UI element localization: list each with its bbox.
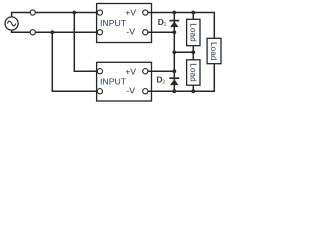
terminal: U1 +V [143, 10, 148, 15]
svg-text:-V: -V [126, 86, 135, 96]
junction dot bottom rail / D2 [172, 89, 176, 93]
power supply U2 (INPUT box, lower) [97, 62, 152, 101]
load box Load3 [207, 38, 221, 63]
svg-text:INPUT: INPUT [100, 77, 127, 87]
terminal: U1 input top [97, 10, 102, 15]
svg-text:2: 2 [162, 79, 165, 85]
junction dot top rail / D1 [172, 11, 176, 15]
terminal: U2 input bottom [97, 89, 102, 94]
diode D1 [169, 21, 179, 28]
junction dot middle rail / trunk [172, 50, 176, 54]
svg-text:1: 1 [164, 22, 167, 28]
power supply U1 (INPUT box, upper) [97, 4, 152, 43]
wire: trunk vertical (D1/D2 column) [173, 13, 175, 92]
svg-text:INPUT: INPUT [100, 18, 127, 28]
wire: AC bottom lead + bottom-left AC line to U1 [12, 30, 97, 33]
junction dot top wire / line drop [72, 11, 76, 15]
terminal: AC line [30, 10, 35, 15]
junction dot bottom wire / neutral drop [50, 30, 54, 34]
wire: top rail from U1 +V to Load3 top [148, 13, 214, 39]
AC source [5, 17, 18, 30]
svg-text:+V: +V [125, 66, 136, 76]
terminal: U2 +V [143, 69, 148, 74]
terminal: U1 input bottom [97, 30, 102, 35]
junction dot +V2 / trunk [172, 69, 176, 73]
terminal: AC neutral [30, 30, 35, 35]
svg-text:Load: Load [189, 63, 199, 82]
wire: neutral drop to U2 bottom input [52, 32, 97, 91]
svg-text:Load: Load [189, 23, 199, 42]
junction dot bottom rail / Load2 [191, 89, 195, 93]
wire: middle rail [174, 51, 193, 53]
terminal: U2 -V [143, 89, 148, 94]
wire: U2 +V to trunk [148, 70, 174, 72]
svg-text:-V: -V [126, 27, 135, 37]
svg-text:+V: +V [125, 8, 136, 18]
wire: Load1 stems [192, 13, 194, 53]
junction dot -V1 / trunk [172, 30, 176, 34]
wire: U1 -V to trunk [148, 31, 174, 33]
diode D2 [169, 78, 179, 85]
wire: line drop to U2 top input [74, 13, 97, 72]
wire: Load2 stems [192, 52, 194, 91]
load box Load1 [187, 19, 200, 45]
svg-text:Load: Load [209, 42, 219, 61]
wire: bottom rail from U2 -V to Load3 bottom [148, 64, 214, 91]
terminal: U2 input top [97, 69, 102, 74]
load box Load2 [187, 60, 200, 85]
wire: AC top lead + top-left AC line to U1 [12, 13, 97, 18]
junction dot middle rail / Load stems [191, 50, 195, 54]
junction dot top rail / Load1 [191, 11, 195, 15]
terminal: U1 -V [143, 30, 148, 35]
